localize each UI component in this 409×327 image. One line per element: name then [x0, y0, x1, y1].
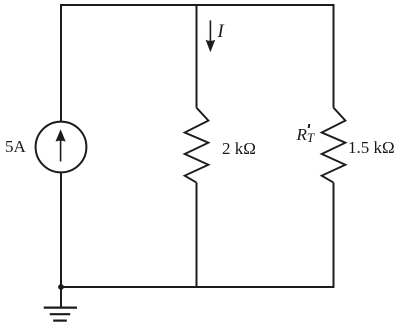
label R'T (resistor name) [0, 0, 1, 1]
resistor R1 (2 kOhm) [185, 108, 209, 183]
label 1.5 kOhm (resistor value) [348, 138, 395, 158]
wire: middle branch upper (top rail to 2k resistor) [196, 4, 198, 108]
current source I1 (5A) [36, 122, 87, 173]
wire: top rail [60, 4, 334, 6]
current source arrow (pointing up) [56, 129, 66, 161]
wire: bottom rail [60, 286, 334, 288]
resistor R'T (1.5 kOhm) [322, 108, 346, 183]
wire: right branch lower (1.5k resistor to bottom rail) [333, 183, 335, 288]
label 2 kOhm (resistor value) [222, 139, 256, 159]
ground symbol [44, 308, 77, 321]
label 5A (current source value) [5, 137, 26, 157]
current arrow I (pointing down) [206, 20, 216, 52]
wire: ground stub [60, 287, 62, 307]
label I (branch current) [218, 22, 224, 43]
wire: right branch upper (top rail to 1.5k resistor) [333, 4, 335, 108]
wire: left branch upper (top rail to current source) [60, 4, 62, 122]
wire: middle branch lower (2k resistor to bottom rail) [196, 183, 198, 288]
wire: left branch lower (current source to bottom rail) [60, 172, 62, 288]
node: ground junction dot [58, 284, 64, 290]
